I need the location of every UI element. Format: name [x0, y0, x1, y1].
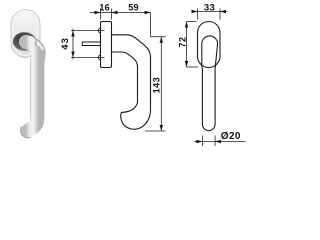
- svg-text:59: 59: [128, 3, 139, 13]
- svg-text:43: 43: [60, 37, 71, 50]
- svg-text:33: 33: [204, 3, 215, 14]
- svg-text:Ø20: Ø20: [221, 131, 241, 142]
- svg-text:143: 143: [151, 77, 161, 94]
- svg-text:16: 16: [99, 3, 110, 13]
- svg-text:72: 72: [177, 36, 187, 47]
